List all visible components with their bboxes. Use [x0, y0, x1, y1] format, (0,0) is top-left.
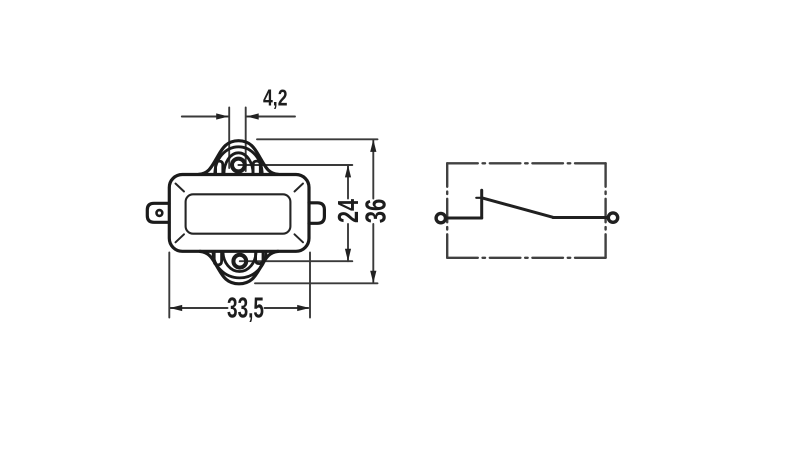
- svg-text:4,2: 4,2: [263, 84, 288, 110]
- svg-text:33,5: 33,5: [227, 293, 264, 325]
- svg-text:36: 36: [361, 199, 393, 224]
